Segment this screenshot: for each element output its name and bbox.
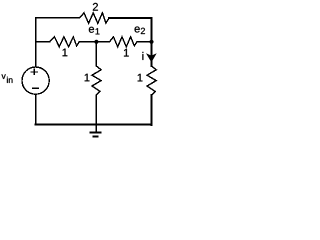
current arrow i head [146, 53, 157, 62]
node label e1 subscript [96, 28, 100, 34]
ground bar 1 [90, 131, 102, 133]
resistor R3 value 1 (right horizontal) [110, 37, 138, 47]
wire top-right segment [109, 18, 152, 42]
label 1 (left horizontal resistor value) [63, 49, 68, 57]
voltage source Vin circle [22, 67, 49, 94]
resistor R1 value 1 (left horizontal) [50, 37, 80, 47]
current label i [141, 52, 144, 60]
resistor R4 value 1 (left vertical) [92, 66, 101, 95]
node e2 junction dot [149, 40, 153, 44]
label 1 (right vertical resistor value) [138, 74, 143, 82]
wire e1 branch down [95, 42, 97, 66]
source plus sign horizontal [31, 71, 38, 73]
wire left rail below source [35, 94, 37, 124]
wire left rail above source [35, 42, 37, 67]
source plus sign vertical [33, 69, 35, 75]
wire left rail to R1 [36, 41, 50, 43]
node label e2 subscript [141, 28, 145, 34]
wire R3 to node e2 [137, 41, 152, 43]
wire top-left segment [36, 18, 80, 42]
ground stub [95, 124, 97, 132]
wire node e1 to R3 [96, 41, 109, 43]
label 2 (top resistor value) [93, 3, 98, 11]
label 1 (left vertical resistor value) [85, 74, 90, 82]
source minus sign [32, 87, 39, 89]
ground bar 2 [93, 136, 99, 138]
wire bottom rail [36, 124, 152, 126]
node label e2 [135, 26, 140, 32]
source label in subscript [7, 77, 12, 83]
node e1 junction dot [94, 40, 98, 44]
wire R1 to node e1 [79, 41, 96, 43]
wire R4 to bottom rail [95, 95, 97, 124]
label 1 (right horizontal resistor value) [124, 49, 129, 57]
source label v [2, 74, 6, 78]
wire R5 to bottom rail [151, 95, 153, 125]
node label e1 [89, 27, 94, 33]
resistor R2 value 2 (top) [80, 13, 110, 23]
resistor R5 value 1 (right vertical) [147, 66, 156, 95]
wire e2 branch down [151, 42, 153, 66]
